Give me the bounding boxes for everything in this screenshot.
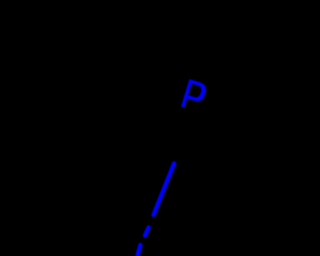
line: dash 2 of hidden (dashed) part, clipped at bottom edge xyxy=(137,245,141,256)
line: solid segment from P downward xyxy=(154,163,175,215)
line: dash 1 of hidden (dashed) part xyxy=(145,227,149,235)
label P (point P) xyxy=(181,79,208,112)
